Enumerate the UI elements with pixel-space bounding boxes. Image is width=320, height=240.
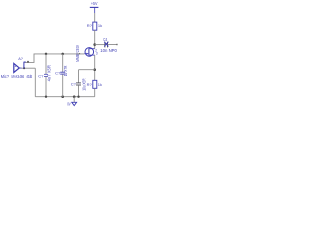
power flag +5V: [90, 1, 99, 13]
resistor R1: [87, 22, 102, 30]
ground 0V: [67, 97, 76, 107]
capacitor C1: [38, 65, 51, 81]
svg-text:A?: A?: [18, 57, 23, 61]
wire amp output run: [21, 67, 35, 69]
wire +5V to R1: [94, 13, 96, 22]
wire branch1 upper: [45, 54, 47, 74]
bottom rail wire: [35, 96, 94, 98]
svg-text:1k: 1k: [98, 82, 102, 87]
svg-text:40dB: 40dB: [26, 74, 32, 79]
node bump on staircase: [27, 61, 29, 63]
svg-text:C?: C?: [38, 73, 44, 78]
transistor Q1 JFET: [75, 45, 98, 62]
wire branch2 upper: [62, 54, 64, 72]
svg-text:10n NP0: 10n NP0: [100, 48, 117, 53]
wire branch1 lower: [45, 77, 47, 97]
svg-text:1k: 1k: [98, 23, 102, 28]
wire gate staircase: [24, 54, 84, 63]
node gate branch 1: [45, 53, 48, 56]
svg-text:R?: R?: [87, 82, 93, 87]
svg-text:1u X7R: 1u X7R: [63, 66, 68, 77]
node source junction: [93, 68, 96, 71]
svg-text:C?: C?: [71, 82, 77, 87]
node drain junction: [93, 43, 96, 46]
wire C4 to output end: [108, 44, 117, 46]
resistor R2: [87, 80, 102, 88]
unconnected end square: [116, 44, 117, 45]
svg-text:C?: C?: [55, 71, 61, 76]
svg-text:4u7 X5R: 4u7 X5R: [47, 65, 52, 81]
svg-text:Mic?: Mic?: [1, 74, 10, 79]
wire output to ground leg: [34, 68, 36, 97]
node branch1 rail: [45, 96, 47, 98]
gate pin nub: [79, 53, 80, 54]
wire R1 to drain node: [94, 30, 96, 49]
capacitor C4: [100, 37, 117, 53]
flag pin at amp output: [23, 62, 25, 69]
wire bypass cap to rail: [78, 85, 80, 97]
capacitor C2: [55, 66, 68, 77]
amplifier A1: [1, 57, 33, 79]
svg-text:C4: C4: [103, 37, 107, 42]
wire bypass branch down: [78, 70, 80, 83]
svg-text:+5V: +5V: [91, 1, 98, 6]
wire branch2 lower: [62, 74, 64, 96]
node rail junctions: [61, 95, 64, 98]
wire R2 to bottom rail corner: [94, 88, 96, 96]
svg-text:MAX4466: MAX4466: [12, 74, 25, 79]
svg-text:10u X5R: 10u X5R: [82, 78, 87, 90]
svg-text:R?: R?: [87, 23, 93, 28]
DNP cross on C4: [104, 42, 108, 47]
wire drain node to C4: [95, 44, 105, 46]
svg-text:0V: 0V: [67, 102, 71, 107]
capacitor C3 bypass: [71, 78, 87, 90]
wire source down: [94, 55, 96, 80]
node amp output junction: [23, 67, 25, 69]
svg-text:3: 3: [96, 52, 98, 56]
node gate branch 2: [61, 53, 64, 56]
wire source bypass horizontal: [79, 69, 95, 71]
